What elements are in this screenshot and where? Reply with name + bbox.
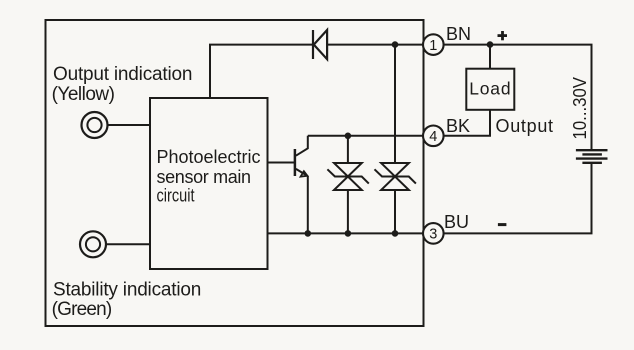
- label: BU: [444, 212, 469, 232]
- node: junction dot emitter on BU wire: [305, 230, 312, 237]
- label: Output indication (Yellow): [52, 64, 193, 105]
- svg-text:Photoelectric: Photoelectric: [157, 147, 261, 167]
- svg-text:(Green): (Green): [52, 299, 112, 320]
- svg-text:BU: BU: [444, 212, 469, 232]
- outer sensor housing box: [46, 20, 424, 326]
- label: Output: [496, 116, 554, 136]
- LED indicator LED1 (yellow output indicator): [82, 112, 108, 138]
- svg-text:4: 4: [429, 129, 437, 145]
- transistor Q1 (NPN output transistor): [295, 136, 308, 177]
- inner box U1: photoelectric sensor main circuit: [150, 98, 268, 269]
- terminal 3 (BU pin circle): [423, 223, 444, 244]
- wire: BK rail inside box (collector rail): [308, 135, 423, 137]
- label: + (positive supply): [498, 31, 508, 40]
- label: Stability indication (Green): [52, 280, 201, 321]
- node: junction dot Z2 on BU wire: [392, 230, 399, 237]
- svg-text:Stability indication: Stability indication: [53, 280, 201, 301]
- svg-text:Output indication: Output indication: [53, 64, 192, 85]
- wire: TVS Z2 top lead from BN dot: [394, 45, 396, 163]
- wire: BU rail inside box: [268, 232, 424, 234]
- svg-text:10...30V: 10...30V: [570, 77, 590, 140]
- svg-text:Output: Output: [496, 116, 554, 136]
- wire: LED2 to main circuit: [106, 243, 150, 245]
- wire: base from main circuit to Q1: [268, 162, 295, 164]
- terminal 1 (BN pin circle): [423, 34, 444, 55]
- node: junction dot Z1 on BU wire: [345, 230, 352, 237]
- svg-text:1: 1: [429, 38, 437, 54]
- svg-text:Load: Load: [469, 79, 511, 99]
- wire: LED1 to main circuit: [108, 124, 151, 126]
- wire: TVS Z1 bottom lead: [347, 190, 349, 233]
- node: junction dot TVS Z2 top on BN wire: [392, 41, 399, 48]
- load box RL: [466, 69, 514, 110]
- TVS bidirectional zener Z2: [375, 163, 416, 190]
- label: 10...30V (supply voltage, rotated): [570, 77, 590, 140]
- wire: TVS Z2 bottom lead: [394, 190, 396, 233]
- wire: terminal 3 to battery negative: [444, 163, 592, 234]
- svg-text:BN: BN: [446, 24, 471, 44]
- wire: load top connection: [489, 45, 491, 69]
- battery BT1 (10...30V supply): [576, 150, 608, 163]
- wire: diode D1 to terminal 1: [327, 44, 423, 46]
- TVS bidirectional zener Z1: [327, 163, 368, 190]
- node: junction dot TVS Z1 top on BK wire: [345, 133, 352, 140]
- svg-text:3: 3: [429, 227, 437, 243]
- label: BN: [446, 24, 471, 44]
- label: minus (negative supply): [498, 223, 507, 226]
- svg-text:sensor main: sensor main: [157, 167, 251, 187]
- svg-text:circuit: circuit: [157, 186, 195, 206]
- wire: load bottom to terminal 4 (output): [444, 110, 490, 136]
- svg-text:BK: BK: [446, 116, 470, 136]
- svg-text:(Yellow): (Yellow): [52, 84, 115, 105]
- diode D1 (reverse polarity protection, cathode left): [313, 30, 327, 59]
- label: BK: [446, 116, 470, 136]
- node: junction dot load top on BN wire: [487, 41, 494, 48]
- wire: Q1 emitter down to BU rail: [307, 176, 309, 234]
- wire: TVS Z1 top lead: [347, 136, 349, 163]
- wire: terminal 1 to battery positive: [444, 45, 592, 151]
- terminal 4 (BK pin circle): [423, 126, 444, 147]
- wire: main circuit top to BN rail: [210, 45, 313, 98]
- LED indicator LED2 (green stability indicator): [80, 231, 106, 257]
